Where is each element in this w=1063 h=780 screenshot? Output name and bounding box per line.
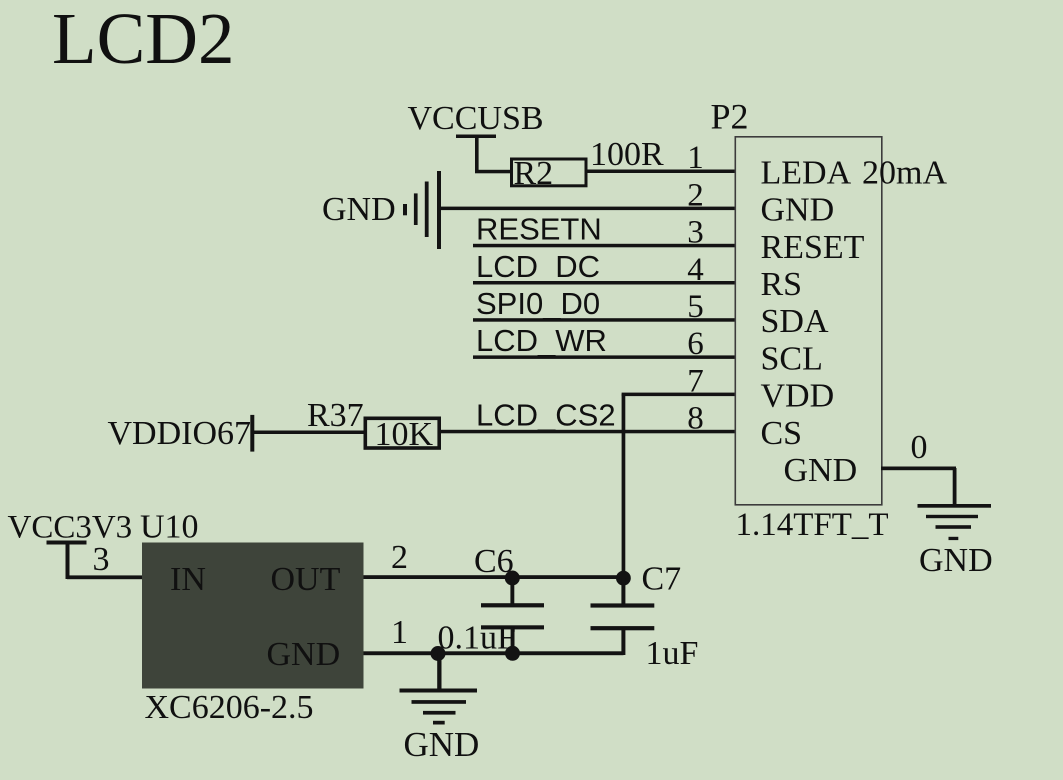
svg-text:SDA: SDA [761,303,829,340]
svg-text:RESETN: RESETN [476,212,602,247]
svg-text:R2: R2 [514,155,554,192]
svg-text:0: 0 [911,429,928,466]
power flag VCC3V3 bar [47,541,87,580]
resistor R2 [512,159,587,186]
svg-text:XC6206-2.5: XC6206-2.5 [145,689,314,726]
svg-text:3: 3 [687,215,704,251]
wire pin4 RS [473,281,735,285]
svg-text:GND: GND [267,636,341,673]
junction C7 top [616,571,631,586]
svg-text:GND: GND [322,191,396,228]
pin stub VDDIO67 [250,415,254,452]
resistor R37 [365,418,439,448]
wire VDDIO67 to R37 [254,431,364,435]
capacitor C7 [591,578,655,655]
svg-text:100R: 100R [590,136,664,173]
wire VCCUSB to R2 [475,170,512,174]
svg-text:R37: R37 [307,397,364,434]
svg-text:GND: GND [404,725,480,764]
svg-text:6: 6 [687,326,704,362]
wire GND to C7 bottom [364,651,624,655]
junction C6 bottom [505,646,520,661]
capacitor C6 [481,578,544,653]
svg-text:1uF: 1uF [646,635,699,672]
regulator U10 body [142,543,364,689]
ground earth bottom [400,653,478,725]
svg-text:2: 2 [391,539,408,576]
svg-text:7: 7 [687,363,704,399]
svg-text:CS: CS [761,415,803,452]
svg-text:2: 2 [687,177,704,213]
svg-text:VCCUSB: VCCUSB [408,100,544,137]
svg-text:GND: GND [784,452,858,489]
svg-text:LCD2: LCD2 [52,0,235,79]
svg-text:VDDIO67: VDDIO67 [108,415,252,452]
junction C6 top [505,571,520,586]
svg-text:GND: GND [919,542,993,579]
svg-text:1.14TFT_T: 1.14TFT_T [736,507,889,543]
svg-text:GND: GND [761,192,835,229]
svg-text:VDD: VDD [761,378,835,415]
svg-text:8: 8 [687,401,704,437]
wire pin7 VDD [622,393,735,397]
svg-text:LCD_WR: LCD_WR [476,323,607,358]
svg-text:OUT: OUT [271,561,341,598]
svg-text:RESET: RESET [761,229,865,266]
ground earth right [918,504,992,540]
svg-text:LEDA: LEDA [761,154,852,191]
wire pin6 SCL [473,355,735,359]
svg-text:IN: IN [170,561,206,598]
svg-text:5: 5 [687,289,704,325]
svg-text:VCC3V3: VCC3V3 [8,510,133,546]
svg-text:1: 1 [391,614,408,651]
connector P2 box [735,137,882,505]
svg-text:10K: 10K [375,416,434,453]
svg-text:RS: RS [761,266,803,303]
wire pin2 GND [440,207,735,211]
wire VDD vertical to C7 [622,394,626,578]
svg-text:4: 4 [687,252,704,288]
svg-text:20mA: 20mA [862,154,947,191]
svg-text:LCD_DC: LCD_DC [476,249,600,284]
wire VCC3V3 to IN [67,575,142,579]
svg-text:1: 1 [687,140,704,176]
wire OUT to C7 [364,575,624,579]
svg-text:3: 3 [93,541,110,578]
wire GND pin to earth [881,467,957,506]
ground chassis bars [403,171,441,249]
pin name LEDA 20mA [761,154,948,191]
svg-text:SCL: SCL [761,340,823,377]
wire pin8 CS [441,430,735,434]
svg-text:0.1uF: 0.1uF [438,620,516,657]
wire pin1 LEDA [586,170,735,174]
power flag VCCUSB bar [456,135,496,173]
wire pin5 SDA [473,318,735,322]
junction GND wire [431,646,446,661]
svg-text:SPI0_D0: SPI0_D0 [476,286,600,321]
svg-text:P2: P2 [711,97,749,137]
svg-text:C7: C7 [642,561,682,598]
wire pin3 RESET [473,244,735,248]
svg-text:LCD_CS2: LCD_CS2 [476,398,616,433]
svg-text:U10: U10 [140,509,199,546]
